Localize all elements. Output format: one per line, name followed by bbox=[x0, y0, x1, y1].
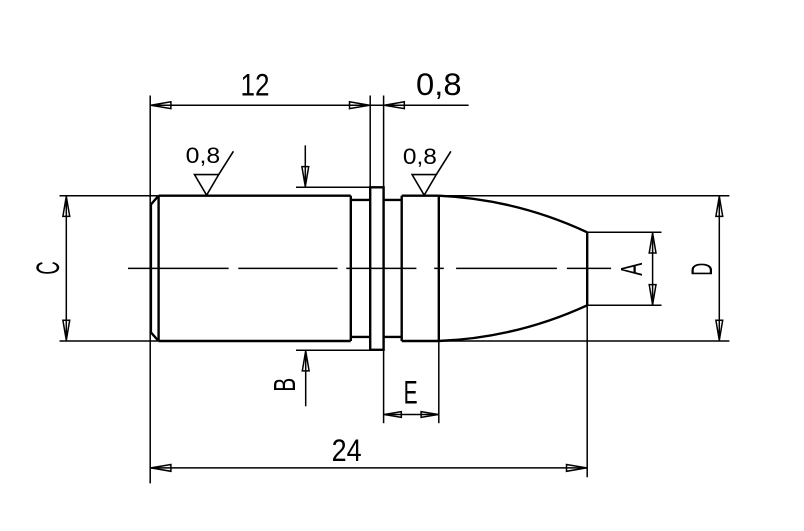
arrowhead: 12 left bbox=[151, 102, 171, 109]
svg-text:12: 12 bbox=[241, 66, 270, 102]
leader line: B bottom (flange bottom level) bbox=[296, 349, 384, 351]
arrowhead: D top bbox=[716, 196, 723, 216]
dimension line: 12 bbox=[150, 104, 370, 106]
arrowhead: E right bbox=[421, 412, 438, 418]
arrowhead: C bottom bbox=[63, 320, 70, 340]
part outline: tip face bbox=[586, 232, 588, 305]
arrowhead: A bottom bbox=[649, 285, 656, 305]
extension line: A top bbox=[587, 231, 661, 233]
svg-text:C: C bbox=[30, 261, 66, 275]
roughness symbol 0,8 right: tail bbox=[436, 151, 451, 174]
arrowhead: C top bbox=[63, 196, 70, 216]
arrowhead: D bottom bbox=[716, 320, 723, 340]
dimension line: A bbox=[652, 232, 654, 305]
svg-text:0,8: 0,8 bbox=[403, 144, 437, 169]
svg-text:A: A bbox=[615, 262, 649, 275]
part outline: flange (0,8 wide collar) bbox=[370, 187, 383, 349]
extension line: flange left (for 12 / 0,8) bbox=[369, 96, 371, 188]
dimension line: D bbox=[718, 196, 720, 341]
part outline: step face bbox=[401, 196, 403, 341]
extension line: flange right bottom (for E) bbox=[383, 350, 385, 423]
extension line: D top bbox=[439, 195, 730, 197]
roughness symbol 0,8 left: tail bbox=[219, 151, 234, 174]
extension line: left end (for 12 and 24) bbox=[149, 96, 151, 484]
part outline: nose arc top bbox=[439, 196, 587, 233]
part outline: left end face with chamfer bbox=[151, 196, 159, 341]
arrowhead: A top bbox=[649, 233, 656, 253]
dimension line: C bbox=[65, 196, 67, 341]
part outline: main body (12 long section) bbox=[159, 196, 351, 341]
svg-text:0,8: 0,8 bbox=[416, 66, 462, 102]
svg-text:24: 24 bbox=[332, 432, 362, 468]
arrowhead: 24 right bbox=[567, 465, 587, 472]
part outline: nose arc bottom bbox=[439, 305, 587, 341]
roughness symbol 0,8 left: triangle bbox=[195, 175, 219, 196]
dimension line: 0,8 top bbox=[370, 104, 468, 106]
svg-text:E: E bbox=[404, 374, 418, 410]
arrowhead: 0,8 right (outside, pointing left) bbox=[384, 102, 404, 109]
part outline: neck groove 1 bbox=[351, 200, 370, 337]
part outline: nose tangent line bbox=[438, 196, 440, 341]
part outline: neck groove 2 bbox=[384, 200, 402, 337]
dimension line: B arrow shafts bbox=[304, 145, 306, 406]
arrowhead: 24 left bbox=[151, 465, 171, 472]
extension line: flange right top (for 0,8) bbox=[383, 96, 385, 188]
arrowhead: E left bbox=[384, 412, 401, 418]
extension line: tip face down (for 24) bbox=[586, 305, 588, 477]
arrowhead: B top (pointing down) bbox=[302, 167, 309, 187]
dimension line: 24 bbox=[150, 467, 587, 469]
arrowhead: B bottom (pointing up) bbox=[302, 351, 309, 371]
arrowhead: 12 right bbox=[350, 102, 370, 109]
extension line: A bottom bbox=[587, 304, 661, 306]
extension line: D bottom bbox=[439, 340, 730, 342]
dimension line: E bbox=[384, 414, 439, 416]
extension line: C top bbox=[60, 195, 159, 197]
svg-text:B: B bbox=[267, 378, 302, 392]
svg-text:D: D bbox=[686, 263, 719, 276]
extension line: C bottom bbox=[60, 340, 159, 342]
roughness symbol 0,8 right: triangle bbox=[412, 175, 436, 196]
svg-text:0,8: 0,8 bbox=[186, 143, 221, 168]
part outline: cylindrical section before nose bbox=[402, 196, 439, 341]
centerline (dash-dot axis y=268.4) bbox=[128, 267, 611, 269]
extension line: nose start down (for E) bbox=[438, 341, 440, 423]
leader line: B top (flange top level) bbox=[296, 186, 370, 188]
